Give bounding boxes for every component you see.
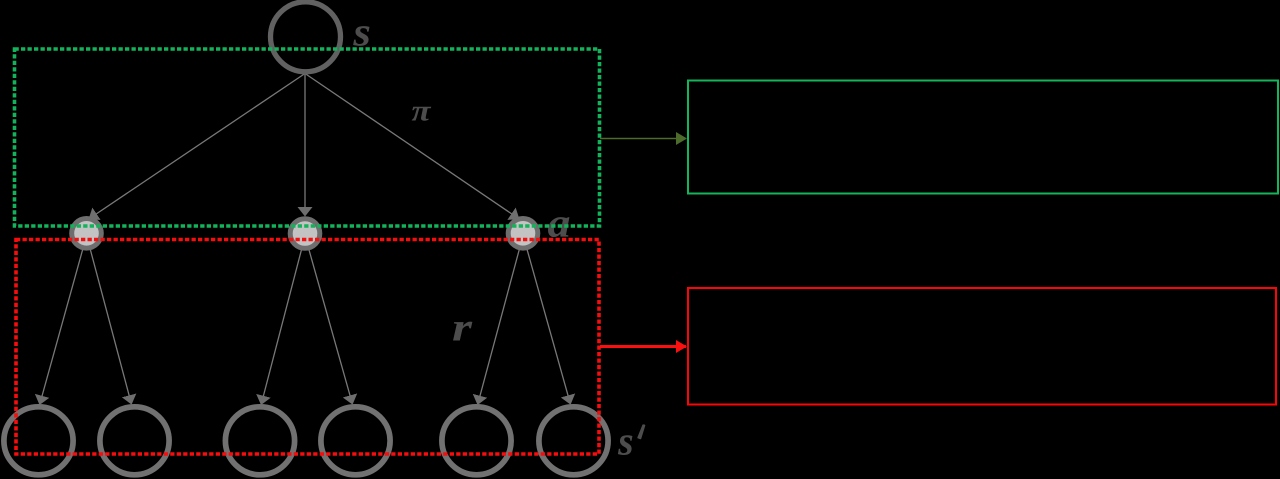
svg-text:s: s [617,418,633,464]
svg-text:r: r [452,305,473,350]
svg-text:π: π [412,95,432,128]
